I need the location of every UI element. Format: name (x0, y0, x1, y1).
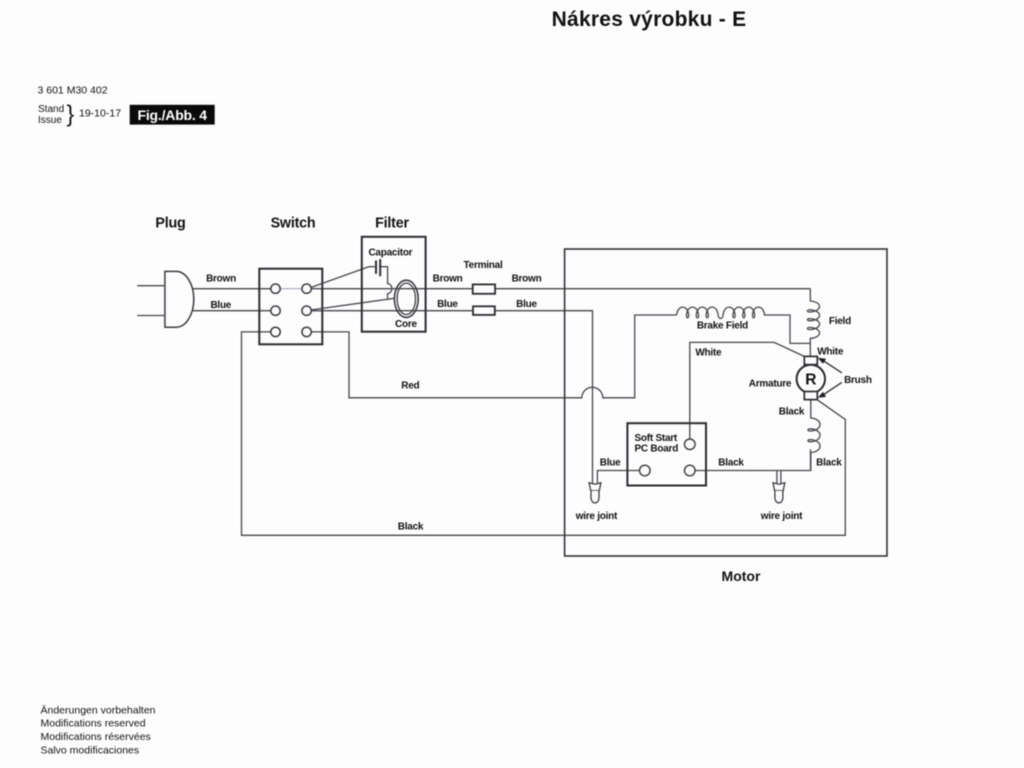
svg-text:Plug: Plug (155, 216, 185, 232)
wire joint 2 (773, 483, 785, 503)
plug body (165, 271, 194, 327)
svg-text:19-10-17: 19-10-17 (79, 108, 121, 120)
soft start pc board (627, 423, 706, 485)
switch box (259, 269, 322, 345)
svg-text:Issue: Issue (38, 115, 62, 126)
svg-text:Terminal: Terminal (464, 260, 503, 271)
pc board terminal left (640, 465, 651, 476)
svg-text:Capacitor: Capacitor (368, 248, 412, 259)
terminal block 1 (473, 284, 495, 293)
svg-text:Switch: Switch (271, 216, 316, 232)
plug prong top (137, 285, 165, 287)
svg-text:White: White (817, 346, 844, 357)
wire switch to core diagonal (311, 298, 394, 310)
wire black pc board to lower coil (695, 449, 811, 470)
svg-text:}: } (67, 101, 75, 127)
capacitor lead left diagonal (311, 267, 375, 288)
svg-text:Core: Core (395, 319, 417, 330)
svg-text:Blue: Blue (516, 299, 537, 310)
brush arrow top (823, 360, 842, 373)
brush top (804, 356, 817, 364)
svg-text:Modifications réservées: Modifications réservées (41, 731, 151, 743)
wire blue pc board to joint 1 (597, 471, 644, 484)
svg-text:White: White (695, 347, 722, 358)
svg-text:Red: Red (401, 380, 419, 391)
armature circle R (797, 365, 825, 393)
wire black (switch to motor bottom and brush diagonal) (242, 332, 846, 535)
wire red (switch to brake field, hop over blue) (307, 315, 677, 398)
motor box (565, 249, 887, 556)
svg-text:Fig./Abb. 4: Fig./Abb. 4 (138, 107, 208, 123)
pc board terminal right (685, 465, 696, 476)
wires into joint 2 (777, 471, 781, 484)
svg-text:Brown: Brown (206, 273, 236, 284)
wire blue (plug to wire joint 1) (192, 310, 272, 312)
brush arrow bottom (823, 382, 842, 395)
svg-text:PC Board: PC Board (635, 443, 679, 454)
svg-text:Black: Black (779, 406, 805, 417)
svg-text:Brush: Brush (844, 375, 872, 386)
lower field coil (808, 400, 820, 471)
plug prong bottom (137, 315, 165, 317)
svg-text:Blue: Blue (600, 457, 621, 468)
svg-text:Motor: Motor (722, 568, 761, 584)
svg-text:Brake Field: Brake Field (697, 321, 748, 332)
brake field coil (677, 307, 811, 343)
wire joint 1 (589, 483, 601, 503)
svg-text:R: R (805, 372, 816, 389)
capacitor lead right with hop over brown wire (381, 267, 392, 300)
svg-text:Soft Start: Soft Start (635, 433, 678, 444)
svg-text:Armature: Armature (749, 378, 792, 389)
svg-text:Filter: Filter (375, 216, 409, 232)
wire brown (plug to field coil corner) (192, 288, 272, 290)
svg-text:Black: Black (398, 521, 424, 532)
wire white (pc board to brush with corner) (690, 342, 805, 444)
svg-text:Brown: Brown (512, 273, 542, 284)
terminal block 2 (473, 306, 495, 315)
Fig./Abb. 4 box (130, 105, 215, 125)
svg-text:Salvo modificaciones: Salvo modificaciones (41, 744, 140, 756)
svg-text:Black: Black (816, 457, 842, 468)
svg-text:Stand: Stand (38, 104, 64, 115)
svg-text:Black: Black (718, 457, 744, 468)
core ring (394, 280, 418, 317)
svg-text:wire joint: wire joint (575, 511, 618, 522)
switch contact circles (271, 284, 280, 293)
svg-text:Blue: Blue (210, 300, 231, 311)
svg-text:Brown: Brown (433, 273, 463, 284)
filter box (362, 237, 426, 332)
svg-text:wire joint: wire joint (760, 511, 803, 522)
svg-text:Field: Field (829, 316, 851, 327)
svg-text:Blue: Blue (437, 299, 458, 310)
field coil (807, 289, 819, 357)
capacitor C plates (375, 261, 377, 274)
pc board terminal top (685, 439, 696, 450)
brush bottom (804, 392, 817, 400)
svg-text:Modifications reserved: Modifications reserved (41, 718, 146, 730)
svg-text:Nákres výrobku - E: Nákres výrobku - E (552, 8, 747, 31)
svg-text:Änderungen vorbehalten: Änderungen vorbehalten (41, 704, 156, 716)
svg-text:3 601 M30 402: 3 601 M30 402 (38, 85, 108, 97)
